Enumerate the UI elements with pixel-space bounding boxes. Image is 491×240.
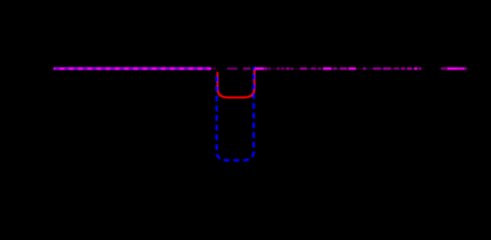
faint smudge underlay of right baseline section: [253, 67, 421, 69]
magenta dash-dot baseline right section: [253, 67, 468, 70]
violet (blue-over-magenta) dash overlay on left baseline: [55, 67, 212, 70]
dim magenta dash-dot marks over well mouth: [213, 67, 251, 69]
blue dashed deep well curve: [217, 67, 254, 160]
red solid shallow well curve: [218, 70, 255, 97]
magenta baseline left solid segment: [54, 67, 212, 70]
